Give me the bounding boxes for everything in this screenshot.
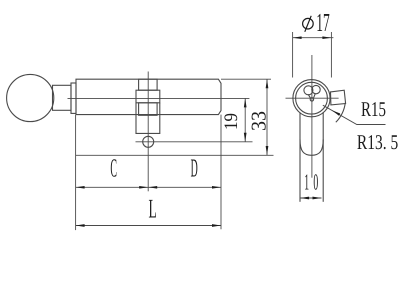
keyway stem left [308,94,310,98]
svg-text:33: 33 [246,111,270,131]
dia17 extension left [292,32,294,78]
body top extension for 33 [221,78,271,80]
diameter symbol slash [305,16,311,32]
svg-text:C: C [110,154,117,183]
cam center line [147,72,149,192]
end view horizontal center line [286,97,339,99]
svg-text:0: 0 [313,170,318,195]
thumbturn tab [331,90,346,105]
end view outer circle [293,80,330,117]
cam block top rect [139,79,158,90]
cam bridge walls [136,103,160,134]
arrow 10 left [300,197,309,200]
dia17 dim line [293,37,334,39]
R13.5 swing arc [336,103,346,123]
cylinder body outline [76,79,221,114]
arrow leader R [332,110,340,116]
side view axis line [68,97,250,99]
knob connector stem [53,85,72,110]
svg-text:R15: R15 [361,97,386,121]
svg-text:1: 1 [304,170,309,195]
arrow 33 top [266,79,269,88]
keyway right lobe [312,85,320,93]
bottom extension line y155 [76,154,274,156]
arrow 19 bottom [244,133,247,142]
keyway left lobe [304,86,313,95]
arrow C right [139,186,148,189]
diameter symbol circle [303,18,314,29]
arrow D right [212,186,221,189]
arrow 19 top [244,98,247,107]
end view vertical center line [311,55,313,178]
cam block lower rect [139,103,158,116]
knob circle [7,74,54,121]
dim line C D [76,186,221,188]
keyway stem right [313,94,315,99]
fixing screw circle [143,136,154,147]
foot bottom U arc [300,140,323,156]
right extension line body [220,115,222,230]
arrow L right [212,224,221,227]
foot right side line [322,113,324,202]
dia17 extension right [330,32,332,78]
svg-text:19: 19 [221,113,242,130]
keyway center hole [310,98,313,101]
svg-text:D: D [191,154,198,183]
arrow D left [148,186,157,189]
leader line R15 R13.5 [323,105,386,124]
svg-text:17: 17 [316,8,330,37]
arrow 33 bottom [266,146,269,155]
dim line 33 [266,79,268,155]
arrow dia17 left [293,36,302,39]
svg-text:R13. 5: R13. 5 [357,130,398,154]
dim line 19 [244,98,246,141]
arrow dia17 right [322,36,331,39]
arrow L left [76,224,85,227]
svg-text:L: L [148,193,156,223]
left extension line body [75,115,77,231]
dim line L [76,225,221,227]
screw circle line / 19 extension [136,141,253,143]
dim line 10 [300,197,321,199]
foot left side line [299,113,301,202]
arrow 10 right [313,197,322,200]
cam block middle rect [136,90,160,103]
end view inner circle [296,82,328,114]
arrow C left [76,186,85,189]
collar ring [71,83,76,113]
